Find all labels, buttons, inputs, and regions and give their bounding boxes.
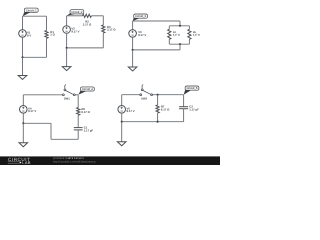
node R7 bottom [157,121,159,123]
svg-text:6.17 Ω: 6.17 Ω [161,107,170,111]
ground C1 [18,57,27,79]
wire top-left C2 [67,15,83,17]
label R4 2.17 Ohm [173,31,180,37]
voltage source V2 [63,26,71,34]
svg-text:3.17 Ω: 3.17 Ω [193,34,200,37]
label R2 2.17 Ohm [83,20,92,27]
svg-text:2.17 Ω: 2.17 Ω [173,34,180,37]
ground C3 [128,50,137,71]
node junction C2 [66,47,68,49]
wire bottom C4 [51,138,78,140]
wire switch to corner C5 [153,94,184,96]
node box top C3 [179,25,181,27]
net flag Circuit_4 [78,87,94,95]
switch SW1 [63,85,76,101]
voltage source V3 [129,30,137,38]
svg-text:9.17 V: 9.17 V [127,109,135,113]
wire R6 to C1 cap [77,115,79,127]
svg-text:1 Ω: 1 Ω [50,33,55,37]
label R6 6.17 Ohm [81,107,90,114]
capacitor C2 [179,107,188,109]
svg-text:Circuit_3: Circuit_3 [135,15,146,18]
label V5 9.17 V [127,107,135,114]
resistor R3 [102,25,105,33]
voltage source V4 [20,106,28,114]
wire feed down C3 [179,21,181,26]
svg-text:1.17 µF: 1.17 µF [84,128,94,132]
wire R4 bottom stub [168,39,170,44]
wire bottom C1 [23,56,47,58]
svg-text:9.17 V: 9.17 V [28,109,36,113]
ground C4 [19,123,28,147]
net flag Circuit_5 [184,86,199,95]
label V1 9 V [27,31,31,38]
wire left lower C1 [22,37,24,57]
svg-text:1.17 µF: 1.17 µF [189,107,199,111]
net flag Circuit_2 [67,10,84,16]
resistor R1 [45,30,48,38]
node junction C4 [22,122,24,124]
svg-text:9.17 V: 9.17 V [138,33,146,37]
svg-text:LAB: LAB [22,160,30,165]
wire left lower C3 [132,37,134,50]
label V2 9.17 V [71,27,79,34]
wire switch to corner C4 [75,94,78,96]
wire right upper C2 [102,16,104,25]
label C1 1.17 uF [84,126,94,133]
label R1 1 Ohm [50,30,55,37]
wire mid vertical C4 [50,123,52,139]
wire R5 top stub [188,26,190,30]
wire cap down C5 [183,109,185,122]
label C2 1.17 uF [189,105,199,112]
wire right upper C5 [183,95,185,107]
resistor R2 [83,14,92,17]
wire return C4 [23,122,51,124]
label R7 6.17 Ohm [161,105,170,112]
resistor R6 [77,108,80,116]
net flag Circuit_1 [23,8,39,16]
node junction C1 [21,56,23,58]
wire feed down lower C3 [179,44,181,50]
svg-text:SW1: SW1 [64,98,70,101]
wire top-right C2 [91,15,103,17]
wire right upper C1 [46,16,48,30]
footer bar [0,156,220,165]
footer text line 1 [53,157,84,160]
voltage source V5 [118,106,126,114]
label R3 3.17 Ohm [107,25,116,32]
wire R7 bottom stub [157,113,159,122]
wire R7 top stub [157,95,159,105]
svg-text:Circuit_2: Circuit_2 [71,11,82,14]
wire bottom C2 [67,47,104,49]
svg-text:http⁠;//circuitlab.com/c843aha: http⁠;//circuitlab.com/c843ahahzaoncy [53,161,96,164]
wire left upper C5 [121,95,123,106]
node box bottom C3 [179,43,181,45]
wire right lower C1 [46,38,48,57]
wire top-left C5 [122,94,140,96]
wire R4 top stub [168,26,170,30]
switch SW2 [140,85,153,101]
svg-text:Circuit_4: Circuit_4 [82,88,93,91]
wire bottom C5 [122,121,184,123]
wire left upper C4 [22,95,24,106]
label V4 9.17 V [28,107,36,114]
CircuitLab logo [8,157,31,165]
svg-text:Circuit_5: Circuit_5 [187,87,198,90]
ground C5 [117,122,126,146]
wire bottom C3 [133,49,180,51]
wire right lower C2 [102,33,104,48]
wire left lower C4 [22,113,24,124]
wire top C3 [133,20,180,22]
wire R5 bottom stub [188,39,190,44]
node R7 top [157,94,159,96]
svg-text:9 V: 9 V [27,33,31,37]
node junction C5 [121,121,123,123]
svg-text:3.17 Ω: 3.17 Ω [107,28,116,32]
svg-text:Circuit_1: Circuit_1 [26,9,37,12]
resistor R7 [156,105,159,113]
wire left upper C2 [66,16,68,26]
resistor R4 [168,29,171,39]
wire cap down C4 [77,130,79,139]
node junction C3 [132,49,134,51]
svg-text:9.17 V: 9.17 V [71,29,79,33]
wire left lower C5 [121,113,123,122]
wire left upper C3 [132,21,134,30]
wire box top rail C3 [169,25,189,27]
net flag Circuit_3 [133,14,148,21]
svg-text:6.17 Ω: 6.17 Ω [81,110,90,114]
wire left lower C2 [66,33,68,48]
footer text line 2 [53,161,96,164]
wire top-left C4 [23,94,62,96]
wire right upper C4 [77,95,79,108]
capacitor C1 [74,128,83,130]
ground C2 [62,48,71,71]
resistor R5 [188,29,191,39]
svg-text:SW2: SW2 [141,98,147,101]
voltage source V1 [19,30,27,38]
svg-text:2.17 Ω: 2.17 Ω [83,22,92,26]
label R5 3.17 Ohm [193,31,200,37]
wire left upper C1 [22,16,24,30]
wire box bottom rail C3 [169,43,189,45]
wire top C1 [23,15,47,17]
label V3 9.17 V [138,30,146,37]
